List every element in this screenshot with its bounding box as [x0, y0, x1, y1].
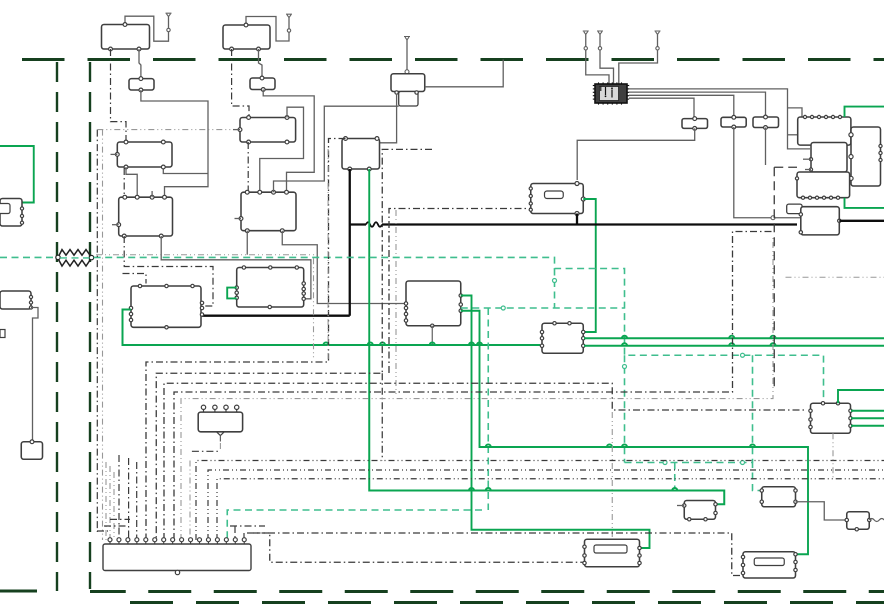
- green vertical from B20: [368, 169, 370, 345]
- light horizontal y277 right: [786, 276, 884, 278]
- green wire B20 to B39: [369, 345, 724, 504]
- teal vertical x488: [487, 308, 489, 510]
- component B15: [115, 140, 172, 169]
- black horizontal to B17: [202, 315, 350, 317]
- dashed stub y167: [774, 166, 797, 168]
- teal node circle 6: [741, 353, 745, 357]
- teal wire T-main: [94, 257, 824, 403]
- wire B1 to B2 (solid): [139, 49, 141, 79]
- dash staircase near bundle: [97, 519, 130, 531]
- wire stub B39 left: [677, 505, 684, 507]
- black wire B23 bottom junction: [576, 214, 578, 225]
- component B12: [798, 115, 851, 145]
- component B18 (left edge): [0, 291, 33, 309]
- squiggle wire B41 to edge: [869, 519, 884, 522]
- wire B18 to B29: [31, 308, 38, 441]
- wire relay out4 to B9: [629, 98, 694, 117]
- wire B15 pin1 to B16 pin2: [126, 167, 137, 197]
- wire B9 bottom to B23 top: [577, 128, 695, 180]
- dash-dot fan line F2: [156, 149, 432, 540]
- wire hook to B12 top: [788, 108, 803, 117]
- bottom connector B35 (multi-pin): [103, 538, 251, 575]
- terminal T5: [597, 31, 603, 50]
- light horizontal y254: [96, 255, 314, 360]
- wire B19 pin1b stub: [246, 231, 248, 255]
- green wire B21 to B37: [461, 296, 650, 549]
- component B13: [803, 143, 847, 173]
- light horizontal y129: [97, 129, 233, 131]
- green wire B12 to right edge top: [845, 107, 884, 117]
- dash-dot wire B1 left pin down to B15: [111, 49, 127, 142]
- wire stub B19 left pin: [235, 218, 242, 220]
- boundary border top: [0, 58, 884, 61]
- dash-dot stub to B17 top: [123, 274, 147, 284]
- teal node circle 5: [623, 365, 627, 369]
- terminal T6: [655, 31, 661, 50]
- terminal T4: [583, 31, 589, 50]
- green bus junction hops: [323, 342, 482, 345]
- wire B6 right to border: [425, 60, 503, 87]
- light fan line F5: [181, 235, 773, 540]
- green wire B33 out2: [584, 343, 884, 346]
- boundary border outer-left vertical: [56, 62, 58, 591]
- component B1 (switch, top-left): [102, 23, 150, 51]
- green wire B34 top out: [838, 390, 884, 403]
- wire B21 bottom to green bus: [431, 326, 433, 344]
- relay K1 (flasher, dark box): [593, 82, 629, 104]
- component B37 (module with slot): [583, 539, 641, 567]
- dash-dot fan line F4: [174, 232, 774, 541]
- light drops to connector: [106, 455, 244, 540]
- black wire main horizontal: [350, 222, 797, 227]
- green wire B25 to right edge: [845, 198, 884, 208]
- light dash vertical x396: [395, 210, 397, 396]
- boundary border lower bottom: [108, 601, 884, 604]
- light row y460: [196, 461, 884, 541]
- green wire B21b to B40: [461, 311, 808, 555]
- teal node circle 3: [663, 461, 667, 465]
- component B17: [129, 284, 203, 329]
- wire relay/B23 vertical: [576, 139, 578, 141]
- wire relay out2 to B11: [629, 92, 766, 116]
- light vertical x102: [102, 130, 104, 540]
- component B40 (module with slot): [741, 552, 797, 578]
- dash stub y451: [192, 450, 220, 452]
- wire B1 top to terminal T1: [125, 16, 169, 41]
- wire T6 to relay: [619, 50, 658, 84]
- dotted stub below B31: [219, 443, 221, 451]
- wire relay out1 to B12/B13: [629, 89, 810, 149]
- dash-dot B15 to B16 pin1: [123, 168, 125, 197]
- boundary border inner bottom: [90, 590, 884, 593]
- green U-link at B22: [227, 288, 237, 299]
- component B20: [342, 137, 380, 171]
- teal branch x674 to green: [674, 463, 676, 490]
- component B3 (switch): [223, 23, 270, 51]
- component B25: [795, 172, 849, 199]
- wire T4 to relay: [586, 50, 609, 84]
- component B23 (module with slot): [529, 182, 585, 216]
- component B14 (left edge): [0, 199, 24, 227]
- teal branch down x554: [554, 269, 556, 309]
- terminal T2 (antenna) for B3: [286, 14, 292, 32]
- component B4 (small relay): [250, 76, 275, 91]
- dash-dot B3 left pin to B5 pin1: [232, 49, 249, 118]
- component B28 (right edge tall): [849, 127, 882, 186]
- wire B3 to B4: [259, 49, 263, 78]
- teal node circle: [553, 279, 557, 283]
- component B21: [404, 281, 462, 327]
- terminal T1 (antenna) for B1: [166, 13, 172, 32]
- teal branch x624 down: [624, 355, 626, 462]
- wire T5 to relay: [600, 50, 614, 84]
- dark vertical x97: [96, 130, 98, 532]
- wire B15 pin2 join vertical x208: [163, 167, 208, 174]
- light vertical below F3 corner: [611, 412, 613, 538]
- wire stub B16 pin3: [151, 191, 153, 197]
- fuse B11: [753, 115, 779, 129]
- wire B16 pin2 to B22 right pin: [161, 236, 311, 299]
- component B41: [845, 512, 871, 531]
- crossing-splice symbol (zigzag): [56, 250, 94, 266]
- component B19 (control unit): [239, 190, 296, 232]
- light vertical x328 lower: [327, 149, 329, 362]
- teal node circle 4: [741, 461, 745, 465]
- green wire B23 to B33: [583, 199, 596, 332]
- boundary border inner-left vertical: [89, 62, 91, 589]
- component B5: [238, 116, 296, 144]
- component B34: [809, 402, 852, 434]
- dashed vertical x774: [773, 167, 775, 390]
- teal node circle 2: [501, 306, 505, 310]
- dash-dot drop x382 lower: [381, 373, 383, 460]
- green wire B17 to bus: [123, 310, 541, 346]
- component B22: [235, 266, 305, 309]
- component B31: [198, 405, 242, 441]
- dash-dot B16 pin1 to B17 right pin: [124, 236, 213, 306]
- green hops on B39 wire: [469, 488, 677, 491]
- component B2 (small relay): [129, 77, 154, 92]
- green wire to B14: [0, 146, 34, 203]
- component B6 (switch with connector): [391, 74, 425, 106]
- dash-dot link connector: [247, 533, 584, 562]
- wire B2 down-right to B16 pin4: [141, 90, 208, 197]
- dash-dot fan line F1: [146, 139, 346, 541]
- component B33: [540, 322, 585, 354]
- wire B4 down to B19 pin4: [263, 90, 314, 193]
- wire B19 pin2b to B21: [282, 231, 405, 304]
- wire relay out3 to B10: [629, 95, 734, 116]
- light row y479: [217, 479, 884, 540]
- dash-dot B5 pin1 to B19 pin1: [247, 142, 249, 192]
- wire branch to B12 left pin: [788, 134, 798, 136]
- component B26 with tab: [787, 204, 841, 235]
- light vertical x833: [832, 433, 834, 479]
- green wire B33 out1: [584, 336, 884, 339]
- wire B5 pin2 loop to B19 pin2: [260, 107, 304, 192]
- component B38: [760, 487, 797, 507]
- component B29 (small box bottom-left): [21, 440, 42, 459]
- component B16 (control unit): [117, 195, 173, 238]
- light row y470: [208, 470, 884, 540]
- teal wire lower-left: [227, 510, 482, 540]
- fuse B10: [721, 115, 746, 128]
- wire B3 top to terminal T2: [246, 17, 289, 42]
- fuse B9: [682, 117, 708, 131]
- wire B38 to B41: [796, 502, 847, 520]
- dash-dot row y533: [254, 533, 741, 576]
- black wire B26 to right edge: [839, 220, 884, 222]
- dash-dot fan line F3: [164, 383, 807, 540]
- component B18 tab: [0, 330, 5, 338]
- dash-dot small y526: [230, 525, 265, 527]
- wire B10 bottom to B26: [734, 127, 801, 218]
- wire B11 bottom stub: [765, 128, 767, 166]
- teal vertical x752 to B38: [752, 355, 754, 462]
- green hops on lower bus: [486, 444, 755, 447]
- component B39: [683, 501, 718, 521]
- dash-dot wire to B23 left: [389, 209, 530, 374]
- wire B6 ext left to B19 pin3: [274, 106, 399, 192]
- wire stub B16 left pin: [112, 224, 119, 226]
- wire stub B5 left pin: [233, 129, 240, 131]
- node on wire to B26: [771, 216, 775, 220]
- green wires B34 right: [851, 411, 884, 426]
- teal wire y462: [625, 463, 762, 491]
- teal wire from B21: [461, 307, 625, 309]
- wire B6 pin to B20: [380, 94, 397, 143]
- teal wire T-main left: [0, 256, 90, 259]
- boundary border outer bottom-left: [0, 590, 57, 593]
- black vertical from B20: [349, 169, 351, 316]
- wire stub B15 left pin: [111, 153, 118, 155]
- terminal T3 (antenna) for B6: [404, 37, 410, 74]
